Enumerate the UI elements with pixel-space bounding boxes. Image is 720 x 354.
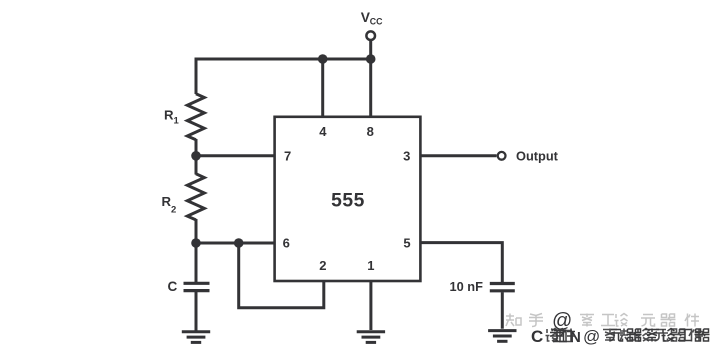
output terminal xyxy=(498,152,506,160)
svg-text:CC: CC xyxy=(370,17,383,27)
resistor R2 xyxy=(187,174,204,220)
wire pin 1 drop xyxy=(369,280,372,330)
junction node R2-C-pin6 xyxy=(191,238,201,248)
svg-text:2: 2 xyxy=(171,205,176,216)
wire pin 5 to 10nF xyxy=(419,243,502,282)
svg-text:5: 5 xyxy=(403,236,410,251)
wire R1 to R2 xyxy=(195,139,198,175)
wire pin 6 xyxy=(196,242,276,245)
svg-text:C: C xyxy=(531,327,543,346)
wire 10nF to ground xyxy=(501,292,504,329)
svg-text:7: 7 xyxy=(284,149,291,164)
svg-text:8: 8 xyxy=(367,124,374,139)
svg-text:1: 1 xyxy=(174,116,180,127)
ground (below C) xyxy=(182,332,210,343)
label R1 xyxy=(164,108,180,127)
svg-text:6: 6 xyxy=(283,236,290,251)
junction node R1-R2-pin7 xyxy=(191,151,201,161)
svg-text:Output: Output xyxy=(516,149,559,164)
svg-text:4: 4 xyxy=(319,124,327,139)
junction node rail-pin4 xyxy=(318,54,328,64)
watermark dark emboss xyxy=(547,330,705,343)
watermark dark xyxy=(531,327,703,346)
svg-text:R: R xyxy=(164,108,174,123)
wire R2 to pin6 node xyxy=(195,219,198,243)
svg-text:1: 1 xyxy=(367,258,374,273)
wire C to ground xyxy=(195,292,198,331)
svg-text:C: C xyxy=(168,279,178,294)
resistor R1 xyxy=(187,94,204,140)
IC U1 555 timer body xyxy=(275,117,421,281)
svg-text:555: 555 xyxy=(331,191,365,212)
svg-text:10 nF: 10 nF xyxy=(450,279,484,294)
svg-text:@: @ xyxy=(583,327,600,346)
svg-text:R: R xyxy=(162,194,172,209)
capacitor 10nF xyxy=(490,284,515,291)
label VCC xyxy=(361,10,383,27)
label R2 xyxy=(162,194,177,216)
wire node to capacitor C xyxy=(195,243,198,282)
svg-text:2: 2 xyxy=(319,258,326,273)
ground (below pin 1) xyxy=(357,332,385,343)
wire pin 2 loop xyxy=(239,243,324,308)
svg-text:3: 3 xyxy=(403,149,410,164)
capacitor C xyxy=(184,283,210,290)
wire pin 4 drop xyxy=(321,59,324,118)
wire pin 3 output xyxy=(419,154,497,157)
VCC terminal xyxy=(366,31,375,40)
wire top rail xyxy=(196,59,371,94)
watermark dark garble overlay xyxy=(550,329,710,342)
wire VCC drop to pin 8 xyxy=(369,40,372,118)
watermark light gray xyxy=(506,310,699,332)
junction node pin2-pin6 xyxy=(234,238,244,248)
wire pin 7 xyxy=(196,154,276,157)
ground (below 10nF) xyxy=(488,331,516,342)
junction node rail-VCC xyxy=(366,54,376,64)
